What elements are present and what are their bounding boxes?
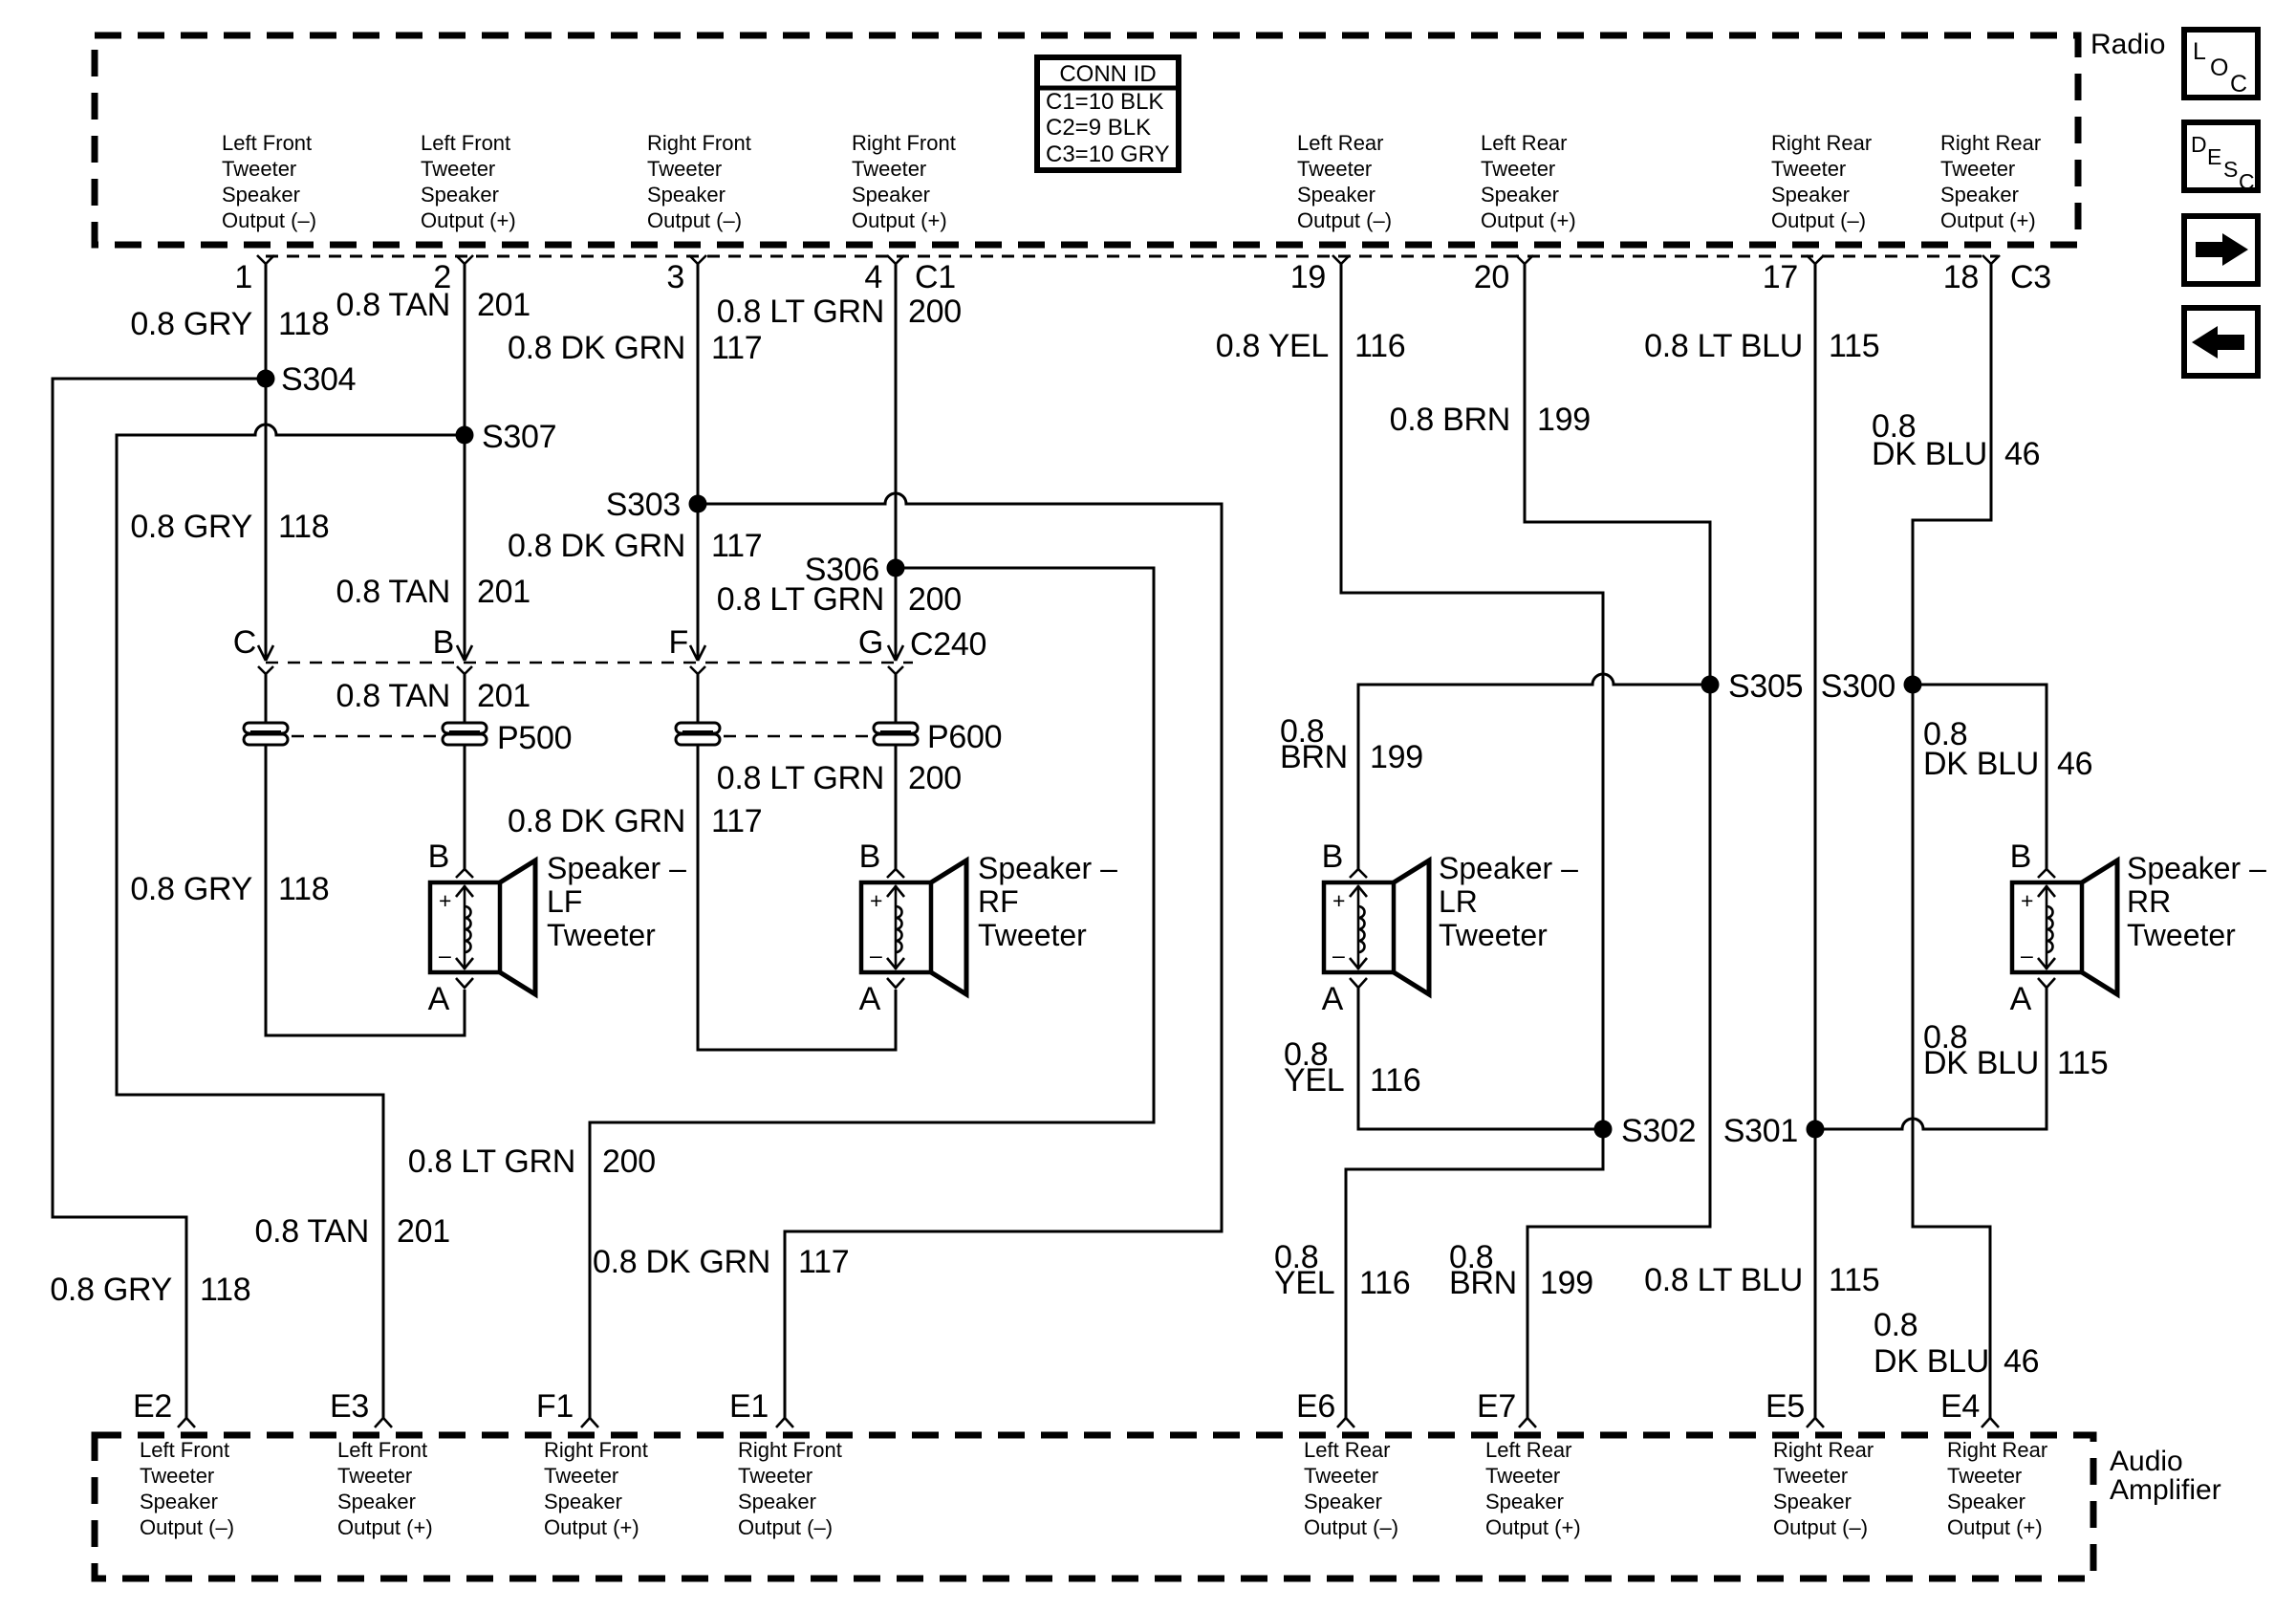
svg-text:C2=9 BLK: C2=9 BLK — [1046, 115, 1151, 141]
svg-text:Left Rear: Left Rear — [1297, 131, 1384, 155]
splice S302 — [1594, 1113, 1697, 1149]
svg-text:RF: RF — [978, 884, 1019, 919]
svg-text:200: 200 — [602, 1143, 656, 1180]
amp pin label Right Rear Tweeter Speaker Output (+) E4 — [1947, 1438, 2047, 1539]
svg-text:115: 115 — [1829, 328, 1879, 364]
wire 1 GRY from pin1 to C240 pin C — [265, 263, 268, 660]
speaker LF Tweeter — [428, 838, 535, 1017]
svg-text:Tweeter: Tweeter — [1947, 1464, 2022, 1488]
svg-text:Output (+): Output (+) — [337, 1515, 433, 1539]
amp pin label Left Rear Tweeter Speaker Output (-) E6 — [1304, 1438, 1398, 1539]
svg-text:116: 116 — [1359, 1265, 1410, 1301]
svg-text:Amplifier: Amplifier — [2110, 1474, 2221, 1506]
svg-text:C3=10 GRY: C3=10 GRY — [1046, 142, 1170, 167]
wire 3 DK GRN from pin3 to C240 pin F — [697, 263, 700, 660]
svg-text:Speaker –: Speaker – — [2127, 851, 2266, 885]
wire 1 grommet to LF speaker A — [266, 745, 465, 1035]
svg-text:Tweeter: Tweeter — [647, 157, 722, 181]
svg-text:Output (–): Output (–) — [1297, 208, 1392, 232]
radio pin label Left Front Tweeter Speaker Output (+) pin2 — [421, 131, 516, 232]
svg-text:19: 19 — [1290, 259, 1326, 295]
amp pin label Right Front Tweeter Speaker Output (+) F1 — [544, 1438, 648, 1539]
svg-text:S306: S306 — [805, 552, 879, 588]
wire label 0.8 GRY 118 (E2 drop) — [50, 1272, 250, 1308]
C240 pin C — [233, 624, 273, 674]
svg-text:Output (+): Output (+) — [1485, 1515, 1581, 1539]
svg-text:S302: S302 — [1621, 1113, 1696, 1149]
svg-text:Tweeter: Tweeter — [1771, 157, 1846, 181]
svg-text:Speaker: Speaker — [738, 1490, 816, 1513]
audio amplifier label — [2110, 1446, 2221, 1506]
svg-text:0.8 LT GRN: 0.8 LT GRN — [717, 294, 884, 330]
svg-text:201: 201 — [397, 1213, 450, 1250]
svg-text:117: 117 — [711, 528, 762, 564]
wire from S303 to amp E1 with hop over wire4 — [698, 493, 1222, 1418]
svg-text:Output (–): Output (–) — [222, 208, 316, 232]
wire from S300 to RR speaker B — [1913, 685, 2047, 869]
svg-text:DK BLU: DK BLU — [1923, 746, 2039, 782]
svg-text:Tweeter: Tweeter — [140, 1464, 214, 1488]
svg-text:117: 117 — [711, 330, 762, 366]
svg-text:S305: S305 — [1728, 668, 1803, 705]
grommet P600 wire4 — [874, 723, 918, 745]
svg-text:Tweeter: Tweeter — [852, 157, 926, 181]
svg-text:200: 200 — [908, 581, 962, 618]
svg-text:BRN: BRN — [1280, 739, 1348, 775]
svg-text:Tweeter: Tweeter — [1481, 157, 1555, 181]
svg-text:1: 1 — [234, 259, 252, 295]
dashed link P500 — [292, 735, 440, 738]
svg-text:Speaker: Speaker — [647, 183, 726, 207]
svg-text:Right Front: Right Front — [738, 1438, 842, 1462]
svg-text:S: S — [2223, 157, 2238, 182]
svg-text:C: C — [2230, 71, 2247, 98]
svg-text:Speaker: Speaker — [544, 1490, 622, 1513]
amp pin label Left Rear Tweeter Speaker Output (+) E7 — [1485, 1438, 1581, 1539]
svg-text:–: – — [1332, 943, 1345, 968]
wire label 0.8 YEL 116 (E6 drop) — [1274, 1239, 1410, 1301]
svg-text:Output (–): Output (–) — [1771, 208, 1866, 232]
svg-text:B: B — [428, 838, 449, 875]
wire 4 from C240 to grommet — [895, 672, 898, 724]
wire label 0.8 BRN 199 (pin20) — [1390, 402, 1591, 438]
svg-text:200: 200 — [908, 760, 962, 796]
svg-text:Speaker –: Speaker – — [1439, 851, 1578, 885]
svg-text:D: D — [2191, 132, 2207, 157]
amp pin E2 — [133, 1388, 195, 1427]
svg-text:0.8 TAN: 0.8 TAN — [255, 1213, 369, 1250]
svg-text:Output (+): Output (+) — [544, 1515, 639, 1539]
wire label 0.8 BRN 199 (LR B) — [1280, 713, 1423, 775]
svg-text:P500: P500 — [497, 720, 572, 756]
pin 2 wedge — [433, 255, 473, 295]
svg-text:Speaker: Speaker — [1297, 183, 1375, 207]
wire 3 grommet to RF speaker A — [698, 745, 896, 1050]
svg-text:S304: S304 — [281, 361, 356, 398]
svg-text:0.8 GRY: 0.8 GRY — [130, 306, 252, 342]
svg-text:C: C — [2239, 169, 2255, 194]
svg-text:Tweeter: Tweeter — [544, 1464, 618, 1488]
amp pin label Left Front Tweeter Speaker Output (-) E2 — [140, 1438, 234, 1539]
pin 4 wedge — [864, 255, 904, 295]
wire from S304 to amp E2 — [53, 379, 266, 1418]
amp pin label Right Front Tweeter Speaker Output (-) E1 — [738, 1438, 842, 1539]
svg-text:Right Front: Right Front — [544, 1438, 648, 1462]
svg-text:Right Rear: Right Rear — [1773, 1438, 1874, 1462]
wire 1 from C240 to grommet — [265, 672, 268, 724]
connector line C1/C3 below radio — [266, 255, 1998, 258]
wire 4 grommet to RF speaker B — [895, 745, 898, 869]
svg-text:Tweeter: Tweeter — [547, 918, 656, 952]
svg-text:RR: RR — [2127, 884, 2171, 919]
svg-text:0.8 GRY: 0.8 GRY — [50, 1272, 172, 1308]
amp pin E6 — [1296, 1388, 1354, 1427]
grommet P500 wire1 — [244, 723, 288, 745]
wire from S302 to amp E6 — [1346, 1129, 1603, 1418]
C240 pin F — [669, 624, 705, 674]
svg-text:Left Rear: Left Rear — [1485, 1438, 1572, 1462]
amp pin E4 — [1940, 1388, 1999, 1427]
svg-text:Output (–): Output (–) — [738, 1515, 833, 1539]
svg-text:Speaker: Speaker — [1947, 1490, 2025, 1513]
svg-text:Left Front: Left Front — [421, 131, 510, 155]
svg-text:Right Rear: Right Rear — [1947, 1438, 2047, 1462]
amp pin label Left Front Tweeter Speaker Output (+) E3 — [337, 1438, 433, 1539]
svg-text:S300: S300 — [1821, 668, 1895, 705]
svg-text:B: B — [2010, 838, 2031, 875]
wire label 0.8 LT GRN 200 (pin4) — [717, 294, 962, 330]
svg-text:116: 116 — [1370, 1062, 1420, 1099]
svg-text:–: – — [870, 943, 882, 968]
svg-text:201: 201 — [477, 574, 531, 610]
svg-text:46: 46 — [2004, 1343, 2039, 1380]
svg-text:Tweeter: Tweeter — [738, 1464, 812, 1488]
svg-text:E6: E6 — [1296, 1388, 1335, 1425]
wire label 0.8 DK GRN 117 (pin3) — [508, 330, 762, 366]
icon LOC box — [2184, 30, 2258, 98]
svg-text:Speaker: Speaker — [852, 183, 930, 207]
svg-text:Left Rear: Left Rear — [1304, 1438, 1391, 1462]
svg-text:Speaker –: Speaker – — [978, 851, 1117, 885]
icon right-arrow box — [2184, 216, 2258, 284]
wire label 0.8 DK GRN 117 (below S303) — [508, 528, 762, 564]
svg-text:Right Rear: Right Rear — [1940, 131, 2041, 155]
svg-text:4: 4 — [864, 259, 882, 295]
svg-text:C3: C3 — [2010, 259, 2051, 295]
svg-text:Tweeter: Tweeter — [337, 1464, 412, 1488]
svg-text:+: + — [439, 888, 451, 913]
svg-text:Radio: Radio — [2090, 29, 2165, 60]
svg-text:20: 20 — [1474, 259, 1509, 295]
splice S305 — [1701, 668, 1804, 705]
C240 pin B — [433, 624, 472, 674]
wire label 0.8 GRY 118 (below S304) — [130, 509, 329, 545]
svg-text:–: – — [439, 943, 451, 968]
svg-text:S303: S303 — [606, 487, 681, 523]
wire from S306 to amp F1 — [590, 568, 1154, 1418]
wire 3 from C240 to grommet — [697, 672, 700, 724]
svg-text:200: 200 — [908, 294, 962, 330]
svg-text:Left Front: Left Front — [140, 1438, 229, 1462]
wire label 0.8 DK BLU 46 (RR B) — [1923, 716, 2092, 782]
speaker RR Tweeter — [2010, 838, 2117, 1017]
svg-text:0.8 LT GRN: 0.8 LT GRN — [717, 760, 884, 796]
speaker RF label — [978, 851, 1117, 952]
svg-text:0.8 BRN: 0.8 BRN — [1390, 402, 1510, 438]
svg-text:A: A — [859, 981, 881, 1017]
wire from S305 to LR speaker B with hop over wire19 — [1358, 674, 1710, 869]
svg-text:Tweeter: Tweeter — [1773, 1464, 1848, 1488]
svg-text:0.8 DK GRN: 0.8 DK GRN — [508, 330, 685, 366]
svg-text:118: 118 — [200, 1272, 250, 1308]
splice S301 — [1723, 1113, 1825, 1149]
splice S306 — [805, 552, 905, 588]
svg-text:Speaker: Speaker — [1940, 183, 2019, 207]
svg-text:E7: E7 — [1477, 1388, 1516, 1425]
wire label 0.8 YEL 116 (LR A) — [1284, 1036, 1420, 1099]
svg-text:46: 46 — [2057, 746, 2092, 782]
svg-text:Output (+): Output (+) — [1481, 208, 1576, 232]
svg-text:Output (+): Output (+) — [421, 208, 516, 232]
svg-text:0.8 LT GRN: 0.8 LT GRN — [408, 1143, 575, 1180]
splice S304 — [257, 361, 357, 398]
splice S303 — [606, 487, 707, 523]
wire label 0.8 GRY 118 (pin1) — [130, 306, 329, 342]
svg-text:Tweeter: Tweeter — [2127, 918, 2236, 952]
svg-text:B: B — [433, 624, 454, 661]
svg-text:+: + — [2021, 888, 2033, 913]
wire LR speaker A to S302 — [1358, 988, 1594, 1129]
amp pin E7 — [1477, 1388, 1536, 1427]
svg-text:46: 46 — [2004, 436, 2040, 472]
wire 2 grommet to LF speaker B — [464, 745, 466, 869]
svg-text:118: 118 — [278, 306, 329, 342]
svg-text:O: O — [2210, 54, 2228, 81]
svg-text:C1: C1 — [915, 259, 956, 295]
speaker RF Tweeter — [859, 838, 966, 1017]
svg-text:Audio: Audio — [2110, 1446, 2183, 1477]
wire 4 LT GRN from pin4 to C240 pin G — [895, 263, 898, 660]
radio pin label Right Front Tweeter Speaker Output (+) pin4 — [852, 131, 956, 232]
svg-text:E5: E5 — [1765, 1388, 1805, 1425]
svg-text:C: C — [233, 624, 256, 661]
svg-text:Output (+): Output (+) — [1940, 208, 2036, 232]
speaker LR Tweeter — [1322, 838, 1429, 1017]
svg-text:Speaker: Speaker — [222, 183, 300, 207]
radio pin label Right Rear Tweeter Speaker Output (+) pin18 — [1940, 131, 2041, 232]
svg-text:116: 116 — [1354, 328, 1405, 364]
CONN ID table — [1037, 57, 1179, 170]
svg-text:Output (+): Output (+) — [1947, 1515, 2043, 1539]
svg-text:Speaker: Speaker — [421, 183, 499, 207]
pin 17 wedge — [1763, 255, 1824, 295]
svg-text:115: 115 — [1829, 1262, 1879, 1298]
wire label 0.8 BRN 199 (E7 drop) — [1449, 1239, 1593, 1301]
svg-text:Speaker: Speaker — [1304, 1490, 1382, 1513]
wire label 0.8 LT BLU 115 (pin17) — [1644, 328, 1879, 364]
wire 2 TAN from pin2 to C240 pin B — [464, 263, 466, 660]
svg-text:0.8 TAN: 0.8 TAN — [336, 574, 450, 610]
svg-text:118: 118 — [278, 509, 329, 545]
svg-text:Tweeter: Tweeter — [222, 157, 296, 181]
svg-text:118: 118 — [278, 871, 329, 907]
svg-text:Tweeter: Tweeter — [1297, 157, 1372, 181]
svg-text:Speaker –: Speaker – — [547, 851, 686, 885]
speaker LF label — [547, 851, 686, 952]
amp pin E3 — [330, 1388, 392, 1427]
svg-text:E2: E2 — [133, 1388, 172, 1425]
radio pin label Left Rear Tweeter Speaker Output (+) pin20 — [1481, 131, 1576, 232]
svg-text:F1: F1 — [536, 1388, 574, 1425]
svg-text:A: A — [2010, 981, 2032, 1017]
svg-text:Output (+): Output (+) — [852, 208, 947, 232]
svg-text:0.8 DK GRN: 0.8 DK GRN — [593, 1244, 770, 1280]
grommet P600 wire3 — [676, 723, 720, 745]
pin 1 wedge — [234, 255, 274, 295]
svg-text:0.8 DK GRN: 0.8 DK GRN — [508, 803, 685, 839]
svg-text:DK BLU: DK BLU — [1874, 1343, 1989, 1380]
pin 20 wedge — [1474, 255, 1533, 295]
svg-text:0.8 LT BLU: 0.8 LT BLU — [1644, 1262, 1803, 1298]
svg-text:Output (–): Output (–) — [1773, 1515, 1868, 1539]
svg-text:C1=10 BLK: C1=10 BLK — [1046, 89, 1163, 115]
wire label 0.8 GRY 118 (left of LF speaker) — [130, 871, 329, 907]
svg-text:0.8: 0.8 — [1874, 1307, 1917, 1343]
svg-text:Speaker: Speaker — [1771, 183, 1850, 207]
svg-text:LR: LR — [1439, 884, 1478, 919]
svg-text:Left Front: Left Front — [222, 131, 312, 155]
svg-text:199: 199 — [1370, 739, 1423, 775]
svg-text:Left Rear: Left Rear — [1481, 131, 1568, 155]
svg-text:C240: C240 — [910, 626, 986, 663]
svg-text:DK BLU: DK BLU — [1872, 436, 1987, 472]
svg-text:Speaker: Speaker — [1481, 183, 1559, 207]
splice S300 — [1821, 668, 1922, 705]
svg-text:115: 115 — [2057, 1045, 2108, 1081]
dashed link P600 — [724, 735, 871, 738]
wire 20 BRN from pin20 down then right then down to E7 — [1525, 263, 1710, 1418]
svg-text:CONN ID: CONN ID — [1059, 61, 1156, 87]
svg-text:0.8 TAN: 0.8 TAN — [336, 287, 450, 323]
pin 18 wedge — [1943, 255, 2000, 295]
wire 2 from C240 to grommet — [464, 672, 466, 724]
radio pin label Left Front Tweeter Speaker Output (-) pin1 — [222, 131, 316, 232]
connector C240 dashed row — [266, 662, 913, 664]
wire label 0.8 DK BLU 46 (E4 drop) — [1874, 1307, 2039, 1380]
svg-text:+: + — [870, 888, 882, 913]
pin 19 wedge — [1290, 255, 1350, 295]
svg-text:B: B — [859, 838, 880, 875]
wire label 0.8 TAN 201 (E3 drop) — [255, 1213, 450, 1250]
wire label 0.8 TAN 201 (pin2) — [336, 287, 531, 323]
svg-text:A: A — [428, 981, 450, 1017]
svg-text:P600: P600 — [927, 719, 1002, 755]
svg-text:3: 3 — [666, 259, 684, 295]
amp pin label Right Rear Tweeter Speaker Output (-) E5 — [1773, 1438, 1874, 1539]
svg-text:Tweeter: Tweeter — [1940, 157, 2015, 181]
icon left-arrow box — [2184, 308, 2258, 376]
speaker LR label — [1439, 851, 1578, 952]
wire label 0.8 LT BLU 115 (E5 drop) — [1644, 1262, 1879, 1298]
svg-text:Speaker: Speaker — [337, 1490, 416, 1513]
svg-text:Output (–): Output (–) — [647, 208, 742, 232]
svg-text:201: 201 — [477, 287, 531, 323]
svg-text:YEL: YEL — [1274, 1265, 1334, 1301]
svg-text:199: 199 — [1537, 402, 1591, 438]
svg-text:F: F — [669, 624, 688, 661]
wire label 0.8 DK GRN 117 (E1 drop) — [593, 1244, 849, 1280]
svg-text:201: 201 — [477, 678, 531, 714]
svg-text:L: L — [2193, 38, 2206, 65]
svg-text:Right Front: Right Front — [852, 131, 956, 155]
radio box — [95, 35, 2078, 245]
svg-text:E1: E1 — [729, 1388, 769, 1425]
svg-text:0.8 GRY: 0.8 GRY — [130, 509, 252, 545]
wire RR speaker A to S301 with hop over S300 drop — [1815, 988, 2047, 1129]
wire label 0.8 LT GRN 200 (F1 drop) — [408, 1143, 656, 1180]
wire label 0.8 DK GRN 117 (above RF speaker) — [508, 803, 762, 839]
svg-text:0.8 TAN: 0.8 TAN — [336, 678, 450, 714]
svg-text:Tweeter: Tweeter — [978, 918, 1087, 952]
svg-text:0.8 LT BLU: 0.8 LT BLU — [1644, 328, 1803, 364]
svg-text:BRN: BRN — [1449, 1265, 1517, 1301]
wire label 0.8 LT GRN 200 (below S306) — [717, 581, 962, 618]
wire label 0.8 LT GRN 200 (below P600) — [717, 760, 962, 796]
svg-text:E4: E4 — [1940, 1388, 1980, 1425]
wire label 0.8 YEL 116 (pin19) — [1216, 328, 1406, 364]
svg-text:S307: S307 — [482, 419, 556, 455]
svg-text:0.8 YEL: 0.8 YEL — [1216, 328, 1329, 364]
wire label 0.8 TAN 201 (below C240) — [336, 678, 531, 714]
svg-text:Speaker: Speaker — [140, 1490, 218, 1513]
wire from S307 to amp E3 with hop over wire1 — [117, 425, 465, 1418]
grommet P500 wire2 — [443, 723, 487, 745]
pin 3 wedge — [666, 255, 706, 295]
svg-text:DK BLU: DK BLU — [1923, 1045, 2039, 1081]
radio pin label Right Rear Tweeter Speaker Output (-) pin17 — [1771, 131, 1872, 232]
svg-text:Right Front: Right Front — [647, 131, 751, 155]
amp pin E1 — [729, 1388, 793, 1427]
svg-text:YEL: YEL — [1284, 1062, 1344, 1099]
svg-text:Speaker: Speaker — [1485, 1490, 1564, 1513]
svg-text:Output (–): Output (–) — [1304, 1515, 1398, 1539]
svg-text:0.8 DK GRN: 0.8 DK GRN — [508, 528, 685, 564]
radio pin label Left Rear Tweeter Speaker Output (-) pin19 — [1297, 131, 1392, 232]
wire 18 DK BLU from pin18 down then left then down to E4 — [1913, 263, 1991, 1418]
svg-text:Output (–): Output (–) — [140, 1515, 234, 1539]
wire label 0.8 DK BLU 46 (pin18) — [1872, 408, 2040, 472]
amp pin E5 — [1765, 1388, 1824, 1427]
speaker RR label — [2127, 851, 2266, 952]
svg-text:E3: E3 — [330, 1388, 369, 1425]
svg-text:117: 117 — [798, 1244, 849, 1280]
svg-text:Tweeter: Tweeter — [1439, 918, 1548, 952]
svg-text:Left Front: Left Front — [337, 1438, 427, 1462]
svg-text:Tweeter: Tweeter — [1485, 1464, 1560, 1488]
radio pin label Right Front Tweeter Speaker Output (-) pin3 — [647, 131, 751, 232]
svg-text:17: 17 — [1763, 259, 1798, 295]
svg-text:S301: S301 — [1723, 1113, 1798, 1149]
wire label 0.8 DK BLU 115 (RR A) — [1923, 1019, 2108, 1081]
audio amplifier box — [95, 1435, 2093, 1578]
svg-text:B: B — [1322, 838, 1343, 875]
svg-text:0.8 GRY: 0.8 GRY — [130, 871, 252, 907]
svg-text:Speaker: Speaker — [1773, 1490, 1852, 1513]
icon DESC box — [2184, 122, 2258, 194]
svg-text:117: 117 — [711, 803, 762, 839]
svg-text:18: 18 — [1943, 259, 1979, 295]
wire 19 YEL from pin19 down then right then down to S302 — [1341, 263, 1603, 1129]
